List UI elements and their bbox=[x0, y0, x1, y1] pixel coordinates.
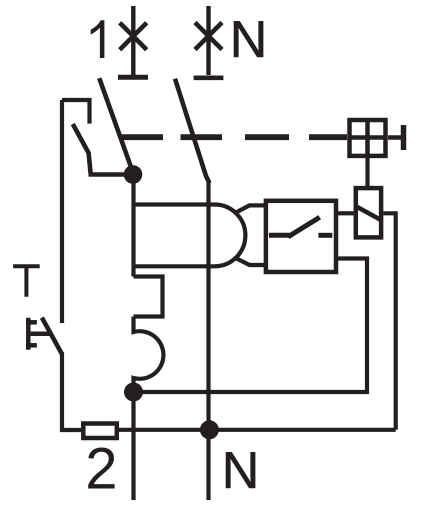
label T bbox=[13, 264, 40, 296]
residual current release K1 bbox=[355, 188, 383, 237]
wire test circuit top bbox=[62, 100, 90, 124]
resistor R1 bbox=[83, 424, 117, 439]
wire terminal 2 bbox=[131, 393, 135, 501]
pole 1 switch blade bbox=[100, 80, 134, 174]
node A junction dot (pole 1 pivot) bbox=[124, 165, 143, 184]
node B junction dot bbox=[124, 383, 143, 402]
test contact blade bbox=[73, 124, 134, 175]
wire neutral bottom bbox=[119, 428, 396, 432]
wire phase through toroid bbox=[131, 174, 135, 277]
wire mechanism to release bbox=[365, 158, 369, 186]
wire relay to release bbox=[338, 211, 354, 215]
wire relay output to node B bbox=[142, 259, 367, 393]
relay U1 bbox=[266, 201, 336, 272]
terminal 1 bbox=[118, 6, 148, 77]
wire release to neutral bbox=[383, 213, 395, 429]
wire N conductor bbox=[206, 181, 210, 500]
mechanism box U2 bbox=[350, 120, 386, 156]
current transformer toroid W1 bbox=[134, 205, 246, 267]
mechanism linkage dashed line bbox=[119, 134, 347, 140]
magnetic trip coil bbox=[134, 317, 164, 393]
wire test button lead bbox=[60, 100, 64, 323]
test button T cap bbox=[28, 320, 48, 348]
test button T blade bbox=[43, 320, 61, 352]
winding connection bottom bbox=[236, 258, 266, 265]
wire button to resistor bbox=[62, 352, 81, 430]
thermal trip bimetal bbox=[134, 277, 163, 317]
manual actuator T-bar bbox=[388, 125, 404, 150]
pole N switch blade bbox=[176, 81, 209, 181]
svg-text:2: 2 bbox=[85, 437, 117, 502]
winding connection top bbox=[236, 205, 266, 212]
svg-text:N: N bbox=[230, 11, 268, 69]
label 1 bbox=[91, 20, 105, 58]
svg-text:N: N bbox=[222, 442, 260, 500]
terminal N bbox=[194, 6, 224, 78]
node N junction dot bbox=[200, 420, 219, 439]
